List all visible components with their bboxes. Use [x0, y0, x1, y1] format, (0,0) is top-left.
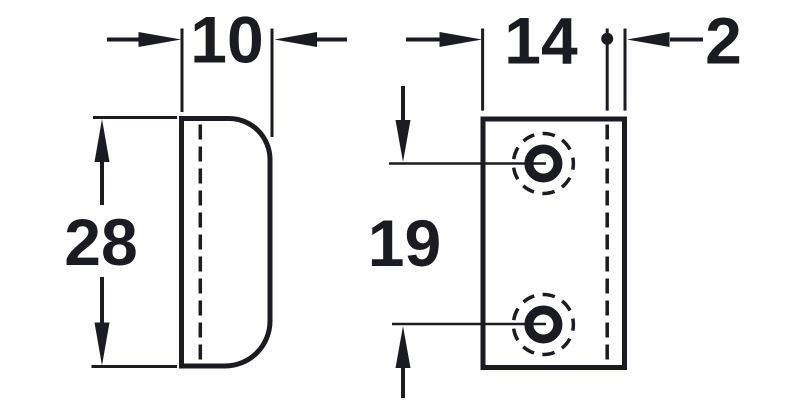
front view plate outline — [483, 119, 625, 368]
svg-text:10: 10 — [190, 3, 263, 77]
dimension 2 (edge distance) — [607, 29, 703, 111]
lower hole — [513, 295, 573, 355]
front view bend line (dashed) — [605, 125, 609, 361]
centerline upper hole — [389, 162, 546, 165]
side view bend line (dashed) — [199, 125, 203, 361]
svg-text:19: 19 — [368, 206, 441, 280]
centerline lower hole — [392, 323, 546, 326]
dimension 14 (plate width) — [406, 29, 625, 111]
dimension 28 (height, left view) — [92, 118, 178, 367]
dimension 19 (hole spacing) — [401, 86, 405, 398]
dimension 10 (width, left view) — [107, 29, 347, 138]
side view outline — [182, 119, 271, 367]
svg-text:14: 14 — [504, 4, 578, 78]
svg-text:28: 28 — [64, 205, 137, 279]
upper hole — [513, 134, 573, 194]
svg-text:2: 2 — [705, 4, 742, 78]
